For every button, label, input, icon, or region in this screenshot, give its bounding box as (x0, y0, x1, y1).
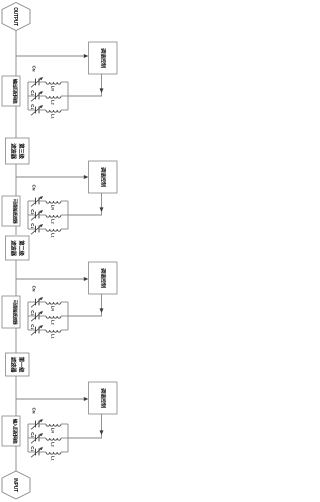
svg-text:L2: L2 (50, 100, 55, 105)
inductor L1 (stage 2) (46, 229, 68, 231)
svg-text:C1: C1 (30, 324, 35, 329)
wire B3-to-A4 (15, 376, 17, 416)
block A1 输出匹配网络 (2, 76, 20, 106)
wire trunk tap to U4 (stage 4) (16, 398, 84, 400)
wire U3 output (control line, stage 3) (101, 294, 103, 316)
wire trunk tap to U2 (stage 2) (16, 176, 84, 178)
svg-text:CN: CN (32, 66, 37, 72)
arrow on U3 control line (stage 3) (100, 308, 104, 313)
svg-text:C1: C1 (30, 104, 35, 109)
svg-text:可调谐滤波器: 可调谐滤波器 (12, 300, 19, 325)
inductor L2 (stage 1) (46, 96, 68, 98)
svg-text:调谐控制: 调谐控制 (100, 388, 107, 408)
wire A3-to-B3 (15, 328, 17, 353)
node INPUT (hexagon terminal) (2, 471, 30, 499)
node OUTPUT (hexagon terminal) (2, 3, 30, 31)
svg-text:LN: LN (50, 86, 55, 92)
block U1 调谐控制 (tuning control, stage 1) (89, 42, 118, 74)
wire U1 output (control line, stage 1) (101, 74, 103, 96)
svg-text:滤波器: 滤波器 (9, 357, 17, 373)
svg-text:LN: LN (50, 205, 55, 211)
capacitor C2 (stage 1) variable (28, 91, 46, 101)
wire top bus (stage 2) (67, 201, 69, 229)
svg-text:输出匹配网络: 输出匹配网络 (12, 79, 19, 104)
capacitor C2 (stage 4) variable (28, 433, 46, 443)
svg-text:输入匹配网络: 输入匹配网络 (12, 419, 19, 444)
svg-text:INPUT: INPUT (12, 478, 18, 492)
wire U2 output (control line, stage 2) (101, 193, 103, 215)
wire top bus (stage 1) (67, 82, 69, 110)
wire top bus (stage 3) (67, 302, 69, 330)
wire A2-to-B2 (15, 224, 17, 235)
svg-text:滤波器: 滤波器 (9, 240, 17, 256)
capacitor CN (stage 3) variable (28, 297, 46, 307)
block U4 调谐控制 (tuning control, stage 4) (89, 382, 118, 414)
arrow on U2 control line (stage 2) (100, 207, 104, 212)
svg-text:第二级: 第二级 (17, 240, 25, 256)
wire A1-to-B1 (15, 106, 17, 138)
block A2 可调谐滤波器 (2, 196, 20, 226)
inductor L1 (stage 3) (46, 330, 68, 332)
inductor LN (stage 2) (46, 201, 68, 203)
svg-text:L2: L2 (50, 320, 55, 325)
wire A4-to-INPUT (15, 446, 17, 471)
inductor L1 (stage 1) (46, 110, 68, 112)
capacitor CN (stage 1) variable (28, 77, 46, 87)
svg-text:可调谐滤波器: 可调谐滤波器 (12, 199, 19, 224)
block B1 第三级滤波器 (6, 138, 30, 164)
inductor L1 (stage 4) (46, 452, 68, 454)
arrow on U4 control line (stage 4) (100, 430, 104, 435)
svg-text:CN: CN (32, 185, 37, 191)
capacitor CN (stage 2) variable (28, 196, 46, 206)
svg-text:LN: LN (50, 306, 55, 312)
wire bottom bus (stage 2) (27, 201, 29, 229)
capacitor C1 (stage 1) variable (28, 105, 46, 115)
svg-text:C2: C2 (30, 209, 35, 214)
svg-text:调谐控制: 调谐控制 (100, 167, 107, 187)
arrow on U1 control line (stage 1) (100, 88, 104, 93)
svg-text:C2: C2 (30, 90, 35, 95)
block A4 输入匹配网络 (2, 416, 20, 446)
wire B1-to-A2 (15, 164, 17, 196)
block B2 第二级滤波器 (6, 236, 30, 260)
svg-text:C2: C2 (30, 432, 35, 437)
svg-text:OUTPUT: OUTPUT (12, 7, 18, 26)
inductor LN (stage 3) (46, 302, 68, 304)
inductor L2 (stage 3) (46, 316, 68, 318)
wire bottom bus (stage 4) (27, 424, 29, 452)
arrow into U3 (stage 3) (84, 277, 89, 281)
block U2 调谐控制 (tuning control, stage 2) (89, 161, 118, 193)
inductor LN (stage 4) (46, 424, 68, 426)
svg-text:滤波器: 滤波器 (9, 143, 17, 159)
capacitor C1 (stage 4) variable (28, 447, 46, 457)
svg-text:CN: CN (32, 408, 37, 414)
arrow into U4 (stage 4) (84, 397, 89, 401)
svg-text:L1: L1 (50, 233, 55, 238)
block A3 可调谐滤波器 (2, 296, 20, 328)
svg-text:调谐控制: 调谐控制 (100, 48, 107, 68)
svg-text:C1: C1 (30, 446, 35, 451)
svg-text:调谐控制: 调谐控制 (100, 268, 107, 288)
wire trunk tap to U1 (stage 1) (16, 55, 84, 57)
arrow into U2 (stage 2) (84, 175, 89, 179)
svg-text:L2: L2 (50, 219, 55, 224)
wire trunk tap to U3 (stage 3) (16, 278, 84, 280)
wire B2-to-A3 (15, 260, 17, 296)
svg-text:C2: C2 (30, 310, 35, 315)
svg-text:第一级: 第一级 (17, 357, 25, 373)
svg-text:L1: L1 (50, 334, 55, 339)
svg-text:CN: CN (32, 286, 37, 292)
svg-text:L1: L1 (50, 456, 55, 461)
wire bottom bus (stage 3) (27, 302, 29, 330)
inductor LN (stage 1) (46, 82, 68, 84)
capacitor C2 (stage 2) variable (28, 210, 46, 220)
capacitor C1 (stage 3) variable (28, 325, 46, 335)
block B3 第一级滤波器 (6, 353, 30, 376)
capacitor CN (stage 4) variable (28, 419, 46, 429)
arrow into U1 (stage 1) (84, 54, 89, 58)
svg-text:LN: LN (50, 428, 55, 434)
wire top bus (stage 4) (67, 424, 69, 452)
svg-text:C1: C1 (30, 223, 35, 228)
inductor L2 (stage 4) (46, 438, 68, 440)
wire OUTPUT-to-A1 (15, 31, 17, 77)
capacitor C2 (stage 3) variable (28, 311, 46, 321)
svg-text:L2: L2 (50, 442, 55, 447)
capacitor C1 (stage 2) variable (28, 224, 46, 234)
block U3 调谐控制 (tuning control, stage 3) (89, 262, 118, 294)
svg-text:第三级: 第三级 (17, 143, 25, 159)
inductor L2 (stage 2) (46, 215, 68, 217)
wire bottom bus (stage 1) (27, 82, 29, 110)
wire U4 output (control line, stage 4) (101, 414, 103, 438)
svg-text:L1: L1 (50, 114, 55, 119)
